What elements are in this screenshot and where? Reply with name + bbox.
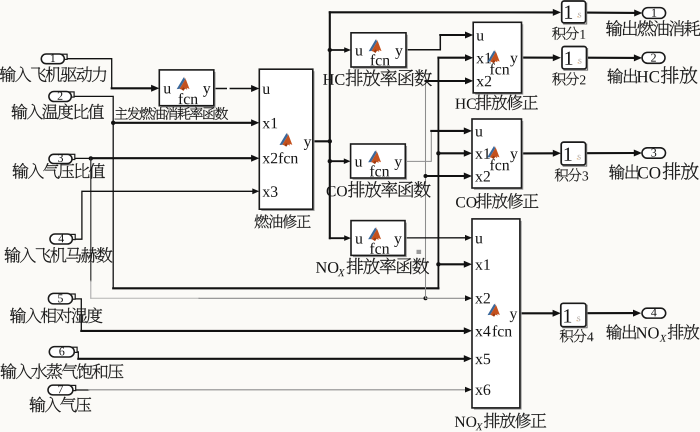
wire integrator4 to output4 <box>586 310 641 317</box>
subsystem block fuel correction 燃油修正 <box>259 69 314 210</box>
wire press-ratio bottom run <box>91 296 428 300</box>
wire CO-corr y to integrator3 <box>522 150 562 157</box>
label input6 输入水蒸气饱和压 <box>1 363 124 379</box>
label input1 输入飞机驱动力 <box>0 66 106 82</box>
wire integrator1 to output1 <box>586 10 643 17</box>
wire input2 elbow <box>71 96 113 122</box>
label input4 输入飞机马赫数 <box>5 247 113 263</box>
wire press-ratio riser <box>425 81 427 298</box>
wire input6 to NOx x5 <box>74 352 472 362</box>
label integrator 2 积分2 <box>552 72 585 85</box>
annotation small grey square <box>417 250 422 254</box>
label input7 输入气压 <box>30 397 92 413</box>
input port 3 <box>49 154 75 164</box>
label output2 输出HC排放 <box>607 66 697 83</box>
label input2 输入温度比值 <box>12 104 104 120</box>
integrator block 1/s 积分1 <box>562 1 587 24</box>
label HC emission-rate function <box>323 69 432 86</box>
wire fuel y vertical bus <box>329 12 331 238</box>
label output1 输出燃油消耗 <box>606 20 700 36</box>
input port 4 <box>50 234 75 244</box>
wire press to NOx x2 <box>426 295 473 301</box>
wire input1 to fuel-rate fcn u <box>64 59 159 92</box>
wire HC-corr y to integrator2 <box>522 54 562 61</box>
wire integrator2 to output2 <box>587 54 643 61</box>
label output4 输出NOx排放 <box>606 324 699 342</box>
label integrator 3 积分3 <box>555 168 588 181</box>
output port 3 <box>642 148 666 158</box>
label CO correction <box>456 193 538 208</box>
label integrator 4 积分4 <box>560 329 594 342</box>
wire input7 to NOx x6 <box>73 387 472 393</box>
wire temp to HC x1 <box>438 54 473 61</box>
wire press to HC x2 <box>426 77 474 84</box>
fcn block U3 CO emission-rate function <box>351 144 407 179</box>
integrator block 1/s 积分2 <box>562 47 588 71</box>
wire NOx-corr y to integrator4 <box>520 310 561 317</box>
input port 2 <box>49 92 74 102</box>
label input5 输入相对湿度 <box>10 307 102 323</box>
label NOx emission-rate function <box>316 258 429 276</box>
subsystem block HC emission correction <box>473 22 523 94</box>
input port 7 <box>48 385 76 395</box>
label output3 输出CO排放 <box>609 162 699 179</box>
wire press to CO x2 <box>424 173 473 180</box>
label CO emission-rate function <box>327 181 431 197</box>
wire press-ratio drop <box>90 158 92 298</box>
label HC correction <box>455 95 538 110</box>
wire input4 to fuel x3 <box>72 188 259 239</box>
wire temp-ratio to fuel x1 <box>111 119 259 126</box>
wire temp to NOx x1 <box>436 261 472 268</box>
input port 5 <box>48 293 75 304</box>
wire temp to CO x1 <box>436 150 472 157</box>
integrator block 1/s 积分3 <box>561 142 587 166</box>
output port 2 <box>642 52 665 63</box>
output port 1 <box>642 8 665 19</box>
label fuel-rate fcn 主发燃油消耗率函数 <box>115 107 228 120</box>
input port 6 <box>49 347 77 357</box>
fcn block U4 NOx emission-rate function <box>351 221 406 257</box>
fcn block U1 fuel-rate function <box>159 70 215 107</box>
wire fuel y to NOx fcn u <box>330 235 351 241</box>
wire temp-ratio riser <box>437 58 439 289</box>
wire fuel y to HC fcn u <box>328 47 351 53</box>
wire integrator3 to output3 <box>586 150 642 157</box>
wire fuel y to CO fcn u <box>328 158 351 164</box>
wire input3 stub <box>72 156 93 160</box>
label integrator 1 积分1 <box>552 27 585 40</box>
wire CO fcn y to CO-corr u <box>405 127 472 161</box>
integrator block 1/s 积分4 <box>561 303 587 328</box>
subsystem block NOx emission correction <box>472 219 521 409</box>
wire fuel y to integrator1 <box>330 9 561 16</box>
wire press-ratio to fuel x2 <box>91 155 259 162</box>
label NOx correction <box>455 413 546 431</box>
wire fuel-rate fcn y to fuel-correction u <box>214 85 259 92</box>
label fuel correction 燃油修正 <box>255 214 311 228</box>
wire HC fcn y to HC-corr u <box>406 32 473 50</box>
wire input5 to NOx x4 <box>72 299 472 334</box>
input port 1 <box>41 54 67 64</box>
wire NOx fcn y to NOx-corr u <box>405 235 472 241</box>
output port 4 <box>642 308 666 318</box>
wire temp-ratio bottom run <box>113 287 438 289</box>
wire fuel y junction <box>313 139 332 143</box>
subsystem block CO emission correction <box>472 119 523 189</box>
fcn block U2 HC emission-rate function <box>351 33 407 68</box>
wire temp-ratio drop <box>112 123 114 288</box>
label input3 输入气压比值 <box>13 163 105 179</box>
